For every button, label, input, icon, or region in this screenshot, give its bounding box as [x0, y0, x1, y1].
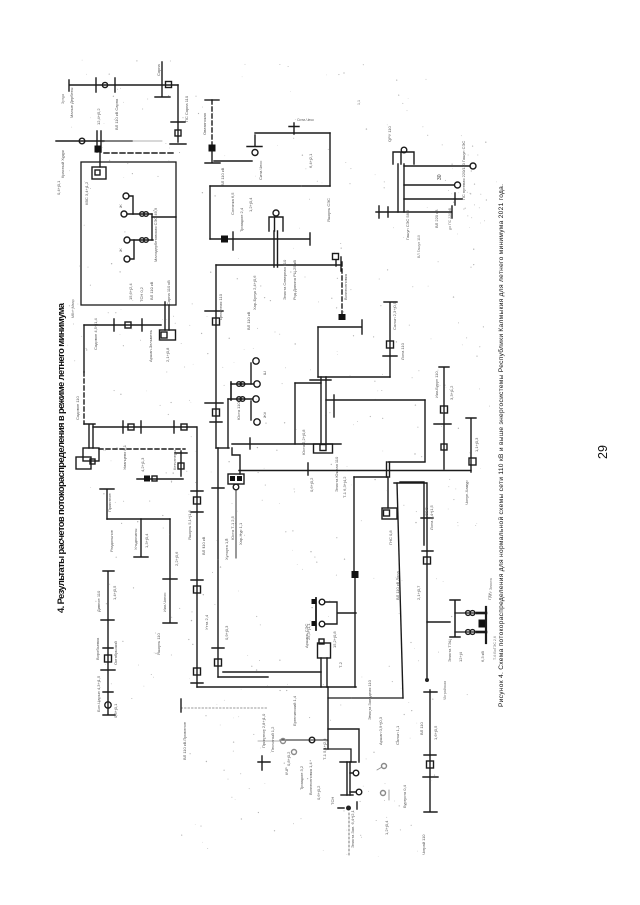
svg-text:29: 29: [596, 445, 610, 459]
substation block Элиста Северная: [269, 217, 283, 231]
svg-text:Элиста Зап. 6,4+j2,1: Элиста Зап. 6,4+j2,1: [350, 809, 355, 848]
feeder east down: [294, 383, 296, 444]
bus Сити-Чесс 110: [255, 132, 330, 134]
svg-text:Лола 4,4+j1,5: Лола 4,4+j1,5: [429, 504, 434, 530]
feeder stub right: [333, 395, 335, 417]
wire lower edge: [210, 233, 310, 245]
svg-text:Т-6 ВоГЭС 2,6: Т-6 ВоГЭС 2,6: [493, 636, 497, 660]
svg-text:ТСН: ТСН: [330, 797, 335, 805]
svg-text:1,2+j0,4: 1,2+j0,4: [248, 197, 253, 212]
wire Элиста Южная east: [326, 399, 425, 401]
svg-text:12,4+j5,2: 12,4+j5,2: [96, 108, 101, 125]
svg-text:ТСН 0,2: ТСН 0,2: [139, 286, 144, 302]
gen pair row 1: [466, 611, 471, 616]
breaker Q1: [166, 82, 172, 88]
dashed tie line: [99, 448, 185, 450]
svg-text:Юста 110: Юста 110: [236, 402, 241, 420]
wire ПС Сарпа feeder: [171, 85, 185, 142]
disconnector ticks on wire: [123, 421, 174, 433]
wire to СЭС block: [99, 152, 101, 167]
stubs to transformers: [350, 773, 356, 792]
long feeder south (slanted scan): [397, 483, 403, 698]
svg-text:Ики-Чонос: Ики-Чонос: [162, 592, 167, 612]
svg-text:2,1+j0,7: 2,1+j0,7: [416, 585, 421, 600]
svg-text:Дивное 110: Дивное 110: [96, 590, 101, 612]
svg-text:Хулхута 1,8: Хулхута 1,8: [224, 538, 229, 560]
svg-text:ПС путевая 220/110 Гашун СЭС: ПС путевая 220/110 Гашун СЭС: [461, 141, 466, 200]
svg-text:ПС Сарпа 110: ПС Сарпа 110: [184, 95, 189, 122]
svg-text:Сити-Чесс: Сити-Чесс: [258, 161, 263, 180]
svg-text:0,9+j0,3: 0,9+j0,3: [224, 625, 229, 640]
svg-text:Октябрьский: Октябрьский: [113, 641, 118, 665]
wire to ТЭЦ: [427, 621, 450, 623]
wire bus to box edge: [152, 216, 176, 218]
svg-text:ВЛ 110 кВ Лола: ВЛ 110 кВ Лола: [395, 571, 400, 600]
svg-text:Оватинская: Оватинская: [202, 113, 207, 135]
feeder gen south: [227, 399, 229, 448]
breaker in block: [95, 170, 100, 175]
svg-text:Ж: Ж: [118, 204, 123, 208]
bus pair below block: [274, 231, 278, 267]
svg-text:0,3+j0,1: 0,3+j0,1: [113, 703, 118, 718]
wire gen row top: [231, 383, 254, 385]
svg-text:ГНС 0,8: ГНС 0,8: [388, 530, 393, 545]
dashed stub south: [348, 813, 350, 856]
svg-text:Ж: Ж: [118, 248, 123, 252]
svg-text:ВЛ 110 кВ Сарпа: ВЛ 110 кВ Сарпа: [114, 98, 119, 130]
disconnector pair: [237, 382, 242, 387]
breaker on bus: [289, 123, 299, 134]
svg-text:Ш: Ш: [262, 371, 267, 375]
gen circle b: [319, 621, 325, 627]
wire west stub: [354, 476, 388, 478]
svg-text:4. Результаты расчетов потокор: 4. Результаты расчетов потокораспределен…: [55, 302, 66, 613]
bus pair Элиста Южная: [321, 377, 326, 444]
bus Элиста ТЭЦ: [450, 600, 460, 637]
generator GT2: [253, 358, 259, 364]
svg-text:Элиста Западная 110: Элиста Западная 110: [367, 679, 372, 720]
wire Элиста Северная - Южная: [216, 257, 341, 271]
svg-text:Уманцево 8,1: Уманцево 8,1: [122, 444, 127, 470]
stub to dashed feeder: [335, 260, 337, 266]
breaker QE: [105, 655, 112, 662]
wire corner east: [218, 676, 268, 678]
svg-text:Зунда: Зунда: [61, 94, 65, 104]
dashed line section: [83, 372, 85, 424]
bus stub right: [258, 756, 270, 770]
svg-text:1,1: 1,1: [357, 100, 361, 105]
svg-text:0,6+j0,2: 0,6+j0,2: [309, 477, 314, 492]
gen cluster bus: [230, 382, 232, 400]
feeder Чограй isolated: [423, 690, 438, 812]
gen circle a: [319, 599, 325, 605]
U bottom wire: [216, 447, 229, 449]
svg-text:Малодербетовская СЭС 49,9: Малодербетовская СЭС 49,9: [153, 207, 158, 262]
feeder stub with breaker: [175, 451, 187, 476]
breaker Q7: [387, 341, 394, 348]
disconnector dark: [309, 737, 315, 743]
feeder Лола north: [383, 302, 397, 377]
svg-text:Воробьевка: Воробьевка: [95, 637, 100, 660]
transformer circle: [233, 484, 239, 490]
solar generator G1: [123, 193, 129, 199]
wire gen east 1: [404, 165, 470, 167]
disconnector ticks: [114, 319, 142, 331]
solar generator G3: [124, 237, 130, 243]
svg-text:Солянка 6,5: Солянка 6,5: [230, 192, 235, 215]
wire Юста horizontal: [232, 443, 341, 445]
svg-text:15,2+j0,8: 15,2+j0,8: [332, 631, 337, 648]
svg-text:Садовое 110: Садовое 110: [75, 395, 80, 420]
breaker Q2: [175, 130, 181, 136]
svg-text:ВЛ 110 кВ: ВЛ 110 кВ: [149, 281, 154, 300]
bus pair joint: [387, 462, 390, 477]
svg-text:ВЛ 110 кВ: ВЛ 110 кВ: [201, 536, 206, 555]
svg-text:Яшкуль 5,1+j1,6: Яшкуль 5,1+j1,6: [187, 510, 192, 540]
solar generator G4: [124, 256, 130, 262]
svg-text:Хар-Нур 1,1: Хар-Нур 1,1: [238, 522, 243, 545]
generator GT2 riser: [250, 363, 252, 384]
generator GT4: [254, 419, 260, 425]
boundary box Малодербетовская СЭС: [81, 162, 176, 305]
wire gen east 2: [404, 184, 454, 186]
breaker closed black: [352, 571, 359, 578]
svg-text:2,1+j0,8: 2,1+j0,8: [165, 347, 170, 362]
breaker in block: [384, 510, 390, 516]
wire Элиста Северная top: [210, 185, 330, 187]
wire gen row 1: [127, 213, 152, 215]
wire Садовое exit from box: [84, 324, 161, 326]
bus pair Элиста-С tap: [165, 302, 169, 330]
svg-text:0,4+j0,1: 0,4+j0,1: [56, 180, 61, 195]
gray node b: [292, 750, 297, 755]
generator GT4 stem: [250, 401, 252, 420]
wire step east: [328, 729, 359, 762]
transformer block Аршан: [382, 508, 397, 519]
breaker QC: [194, 668, 201, 675]
breaker small on bus: [152, 476, 157, 481]
svg-text:Песчаный 1,2: Песчаный 1,2: [270, 726, 275, 752]
gray gen c: [382, 764, 387, 769]
dark wire step: [324, 749, 351, 762]
svg-text:3,3+j1,2: 3,3+j1,2: [449, 385, 454, 400]
tick at line start: [180, 699, 182, 712]
junction dot: [425, 678, 429, 682]
svg-text:до ПС 220 кВ: до ПС 220 кВ: [448, 207, 452, 230]
svg-text:Лола 110: Лола 110: [400, 342, 405, 360]
svg-text:4,2+j1,3: 4,2+j1,3: [140, 457, 145, 472]
svg-text:Ики-Бурул 110: Ики-Бурул 110: [434, 371, 439, 398]
svg-text:Бол.Царын 4,3+j1,5: Бол.Царын 4,3+j1,5: [96, 675, 101, 712]
svg-text:15,6+j2,4: 15,6+j2,4: [128, 283, 133, 300]
substation block Юста: [228, 474, 244, 484]
svg-text:Род.Долина РЦ-25 кВ: Род.Долина РЦ-25 кВ: [292, 260, 297, 300]
breaker black a: [312, 599, 317, 604]
svg-text:1,4+j0,5: 1,4+j0,5: [112, 585, 117, 600]
breaker Q4: [128, 424, 134, 430]
svg-text:КЧР: КЧР: [284, 767, 289, 775]
bus end bar: [205, 99, 219, 101]
bus bar Элиста Южная: [310, 379, 331, 381]
dark bus Утта: [223, 671, 321, 673]
transformer T1: [353, 770, 359, 776]
svg-text:Аршан-Зельмень: Аршан-Зельмень: [148, 330, 153, 362]
breaker at tie point: [333, 254, 339, 260]
svg-text:12+j4: 12+j4: [458, 651, 463, 662]
breaker closed black on bus: [144, 476, 150, 482]
breaker QW1: [213, 318, 220, 325]
svg-text:Бургуста 0,4: Бургуста 0,4: [402, 784, 407, 808]
long wire Юста - Чолун-Хамур: [239, 463, 471, 475]
wire gen row bottom: [228, 398, 253, 400]
load arrow symbol: [338, 802, 357, 809]
breaker small: [441, 444, 447, 450]
bus КВС double section: [97, 131, 101, 152]
svg-text:Юста Т-1 2,5: Юста Т-1 2,5: [230, 515, 235, 540]
svg-text:Вознесеновка: Вознесеновка: [343, 273, 348, 300]
breaker black b: [312, 621, 317, 626]
svg-text:КВС 3,4+j1,2: КВС 3,4+j1,2: [84, 181, 89, 205]
svg-text:Ергенинский 1,4: Ергенинский 1,4: [292, 695, 297, 726]
svg-text:Утта 2,4: Утта 2,4: [204, 614, 209, 630]
svg-text:Приютное: Приютное: [107, 492, 112, 512]
breaker closed black: [339, 314, 346, 320]
wire block east: [394, 482, 426, 484]
breaker on block: [319, 639, 324, 644]
svg-text:25,3+j1,1: 25,3+j1,1: [306, 623, 311, 640]
wire corner down: [329, 133, 331, 186]
dotted long line Приютное-Дивное: [181, 707, 268, 709]
bus bottom bar: [341, 794, 353, 796]
svg-text:Салын 2,3+j0,9: Салын 2,3+j0,9: [392, 301, 397, 330]
gen loop wires: [325, 602, 356, 624]
svg-text:Троицкое 3,2: Троицкое 3,2: [299, 765, 304, 790]
long feeder Лола south: [421, 483, 433, 680]
svg-text:Сарпа 110 кВ: Сарпа 110 кВ: [166, 280, 171, 305]
disconnectors row 2: [140, 238, 145, 243]
bus Яшкуль СЭС: [376, 206, 452, 218]
disconnectors row 1: [140, 212, 145, 217]
breaker in block: [320, 445, 326, 451]
breaker QG: [427, 761, 434, 768]
wire bottom corner west: [328, 697, 403, 699]
wire Красный Худук: [56, 140, 132, 142]
generator GY1: [470, 163, 476, 169]
feeder Приютное north: [100, 489, 114, 519]
breaker QB: [194, 586, 201, 593]
wire G1 stem: [129, 196, 133, 214]
transformer circle on block: [273, 210, 279, 216]
svg-text:ВЛ 110 кВ: ВЛ 110 кВ: [246, 311, 251, 330]
load dot: [346, 806, 351, 811]
svg-text:Сити-Чесс: Сити-Чесс: [297, 118, 314, 122]
wire west tap: [280, 739, 327, 741]
transformer block СЭС: [318, 643, 331, 658]
gen on block: [401, 147, 407, 153]
svg-text:1,2+j0,4: 1,2+j0,4: [384, 820, 389, 835]
long feeder west: [215, 265, 217, 448]
svg-text:Т-1 5,1+j2,3: Т-1 5,1+j2,3: [322, 738, 327, 760]
wire ТЭЦ row 1: [455, 612, 478, 614]
breaker closed black: [221, 236, 228, 243]
bus СЭС vertical: [151, 214, 153, 240]
svg-text:Садовое 4,5+j1,4: Садовое 4,5+j1,4: [93, 318, 98, 350]
tie dashed line: [104, 152, 176, 154]
svg-text:0,6+j0,2: 0,6+j0,2: [316, 785, 321, 800]
svg-text:Аршан 0,9+j0,3: Аршан 0,9+j0,3: [378, 716, 383, 745]
long feeder south-west: [354, 477, 355, 687]
bus СЭС Аршань: [315, 598, 317, 630]
bus T Оватинская: [205, 151, 220, 163]
wire bottom long west-east: [197, 686, 356, 688]
svg-text:2,2+j0,6: 2,2+j0,6: [174, 551, 179, 566]
disconnector circle: [79, 138, 85, 144]
transformer block Садовое: [83, 448, 99, 461]
wire gen row 2: [130, 239, 153, 241]
svg-text:Чолун-Хамур: Чолун-Хамур: [464, 480, 469, 505]
bus Сарпа: [170, 143, 186, 145]
svg-text:ВЛ 110 кВ: ВЛ 110 кВ: [220, 167, 225, 186]
transformer block Элиста Южная: [314, 444, 333, 453]
gray gen d: [381, 791, 386, 796]
svg-text:Вознесеновка 1,4: Вознесеновка 1,4: [308, 762, 313, 795]
wire riser Элиста: [317, 327, 319, 377]
tick on wire: [249, 438, 251, 449]
feeder Дивное long: [101, 571, 115, 715]
generator GT3: [253, 396, 259, 402]
gen pair row 2: [466, 630, 471, 635]
breaker Q5: [181, 424, 187, 430]
wire north loop: [318, 320, 362, 334]
gray wire: [258, 740, 280, 742]
faint wire continuation: [105, 140, 162, 142]
bus Малые Дербеты 110: [69, 78, 178, 92]
riser Элиста Западная: [327, 687, 329, 749]
breaker Q10: [469, 458, 476, 465]
svg-text:Сарпа: Сарпа: [156, 63, 161, 76]
svg-text:6,4+j2,1: 6,4+j2,1: [308, 153, 313, 168]
dark bus seg row1: [477, 612, 486, 615]
svg-text:ВЛ Гашун 110: ВЛ Гашун 110: [417, 235, 421, 258]
svg-text:СЭС: СЭС: [424, 507, 429, 516]
svg-text:ВЛ 110 кВ Приютное: ВЛ 110 кВ Приютное: [182, 721, 187, 760]
breaker Q6: [178, 463, 184, 469]
stub Ульдючины: [134, 519, 148, 557]
svg-text:Элиста Северная 110: Элиста Северная 110: [282, 259, 287, 300]
gray node a: [281, 739, 286, 744]
breaker QW2: [213, 409, 220, 416]
wire G4 stem: [130, 240, 134, 259]
svg-text:Рисунок 4. Схема потокораспред: Рисунок 4. Схема потокораспределения для…: [497, 184, 505, 707]
solar generator G2: [121, 211, 127, 217]
breaker Q9: [441, 406, 448, 413]
dark bar ТЭЦ: [485, 607, 487, 643]
bus Садовое double: [84, 424, 95, 448]
disconnector circle QF: [105, 702, 111, 708]
box Городовиковского левый edge: [209, 186, 211, 239]
feeder below block: [235, 490, 237, 558]
svg-text:Элиста Южная 110: Элиста Южная 110: [334, 456, 339, 492]
svg-text:МВт+jМвар: МВт+jМвар: [71, 299, 75, 318]
breaker black b: [237, 476, 242, 481]
svg-text:6,3 кВ: 6,3 кВ: [480, 651, 485, 662]
bus pair Гашун: [398, 164, 404, 212]
feeder to block: [387, 477, 389, 508]
partial box east: [400, 482, 424, 545]
feeder Ики-Бурул: [434, 367, 451, 469]
svg-text:1,6+j0,5: 1,6+j0,5: [433, 725, 438, 740]
bus Оватинская dashed entry: [211, 100, 213, 148]
svg-text:Ульдючины: Ульдючины: [133, 529, 138, 550]
svg-text:Яшкуль 110: Яшкуль 110: [156, 633, 161, 655]
svg-text:Малые Дербеты: Малые Дербеты: [69, 88, 74, 118]
wire gen east: [295, 382, 321, 384]
wire bottom edge: [388, 461, 425, 463]
svg-text:Красный Худук: Красный Худук: [60, 150, 65, 178]
breaker QD: [215, 659, 222, 666]
block feeders down: [321, 658, 327, 687]
wire to Сити-Чесс: [214, 160, 252, 162]
svg-text:Хар-Булук 2,4+j0,6: Хар-Булук 2,4+j0,6: [252, 275, 257, 310]
svg-text:Т-1 6,3+j4,2: Т-1 6,3+j4,2: [342, 476, 347, 498]
breaker in tap block: [161, 332, 167, 338]
wire down left: [83, 325, 85, 372]
feeder south: [163, 519, 177, 623]
svg-text:ВЛ 220 кВ: ВЛ 220 кВ: [434, 209, 439, 228]
bus pair down: [347, 762, 350, 795]
breaker closed (black): [95, 146, 102, 153]
staircase wire: [232, 448, 240, 474]
svg-text:1,3+j0,4: 1,3+j0,4: [144, 533, 149, 548]
breaker in block: [90, 459, 95, 464]
wire riser: [254, 135, 256, 146]
generator GY2: [455, 182, 461, 188]
disconnector bar lower: [205, 403, 223, 422]
svg-text:ВЛ 110: ВЛ 110: [419, 721, 424, 735]
svg-text:Ж#: Ж#: [262, 411, 267, 418]
disconnector tick: [232, 232, 234, 250]
transformer T2: [356, 789, 362, 795]
svg-text:Т-2: Т-2: [338, 661, 343, 668]
disconnector pair 2: [237, 397, 242, 402]
bus tick: [247, 146, 262, 148]
gray arrow: [377, 767, 382, 770]
svg-text:Кетченеры: Кетченеры: [172, 450, 177, 470]
breaker black a: [230, 476, 235, 481]
breaker Q3: [125, 322, 131, 328]
transformer block КВС: [92, 167, 106, 179]
svg-text:Целинная 110: Целинная 110: [218, 293, 223, 320]
transformer block lower: [76, 457, 91, 469]
block Гашун СЭС: [393, 152, 414, 164]
svg-text:0,8+j0,2: 0,8+j0,2: [286, 751, 291, 766]
breaker Q8: [424, 557, 431, 564]
breaker QA: [194, 497, 201, 504]
wire corner down: [424, 400, 426, 461]
wire ТЭЦ row 2: [455, 631, 478, 633]
wire stub 3: [404, 193, 462, 205]
svg-text:1,1+j0,3: 1,1+j0,3: [474, 437, 479, 452]
svg-text:30: 30: [437, 174, 443, 180]
transformer block tap: [160, 330, 176, 340]
line tap with earth bar: [155, 62, 170, 97]
dashed feeder: [341, 262, 343, 314]
svg-text:Раздольное: Раздольное: [109, 529, 114, 552]
disconnector circle: [252, 150, 258, 156]
feeder Чолун-Хамур: [466, 418, 476, 472]
breaker closed black: [209, 145, 216, 152]
svg-text:Юста 2,2+j0,8: Юста 2,2+j0,8: [301, 429, 306, 455]
